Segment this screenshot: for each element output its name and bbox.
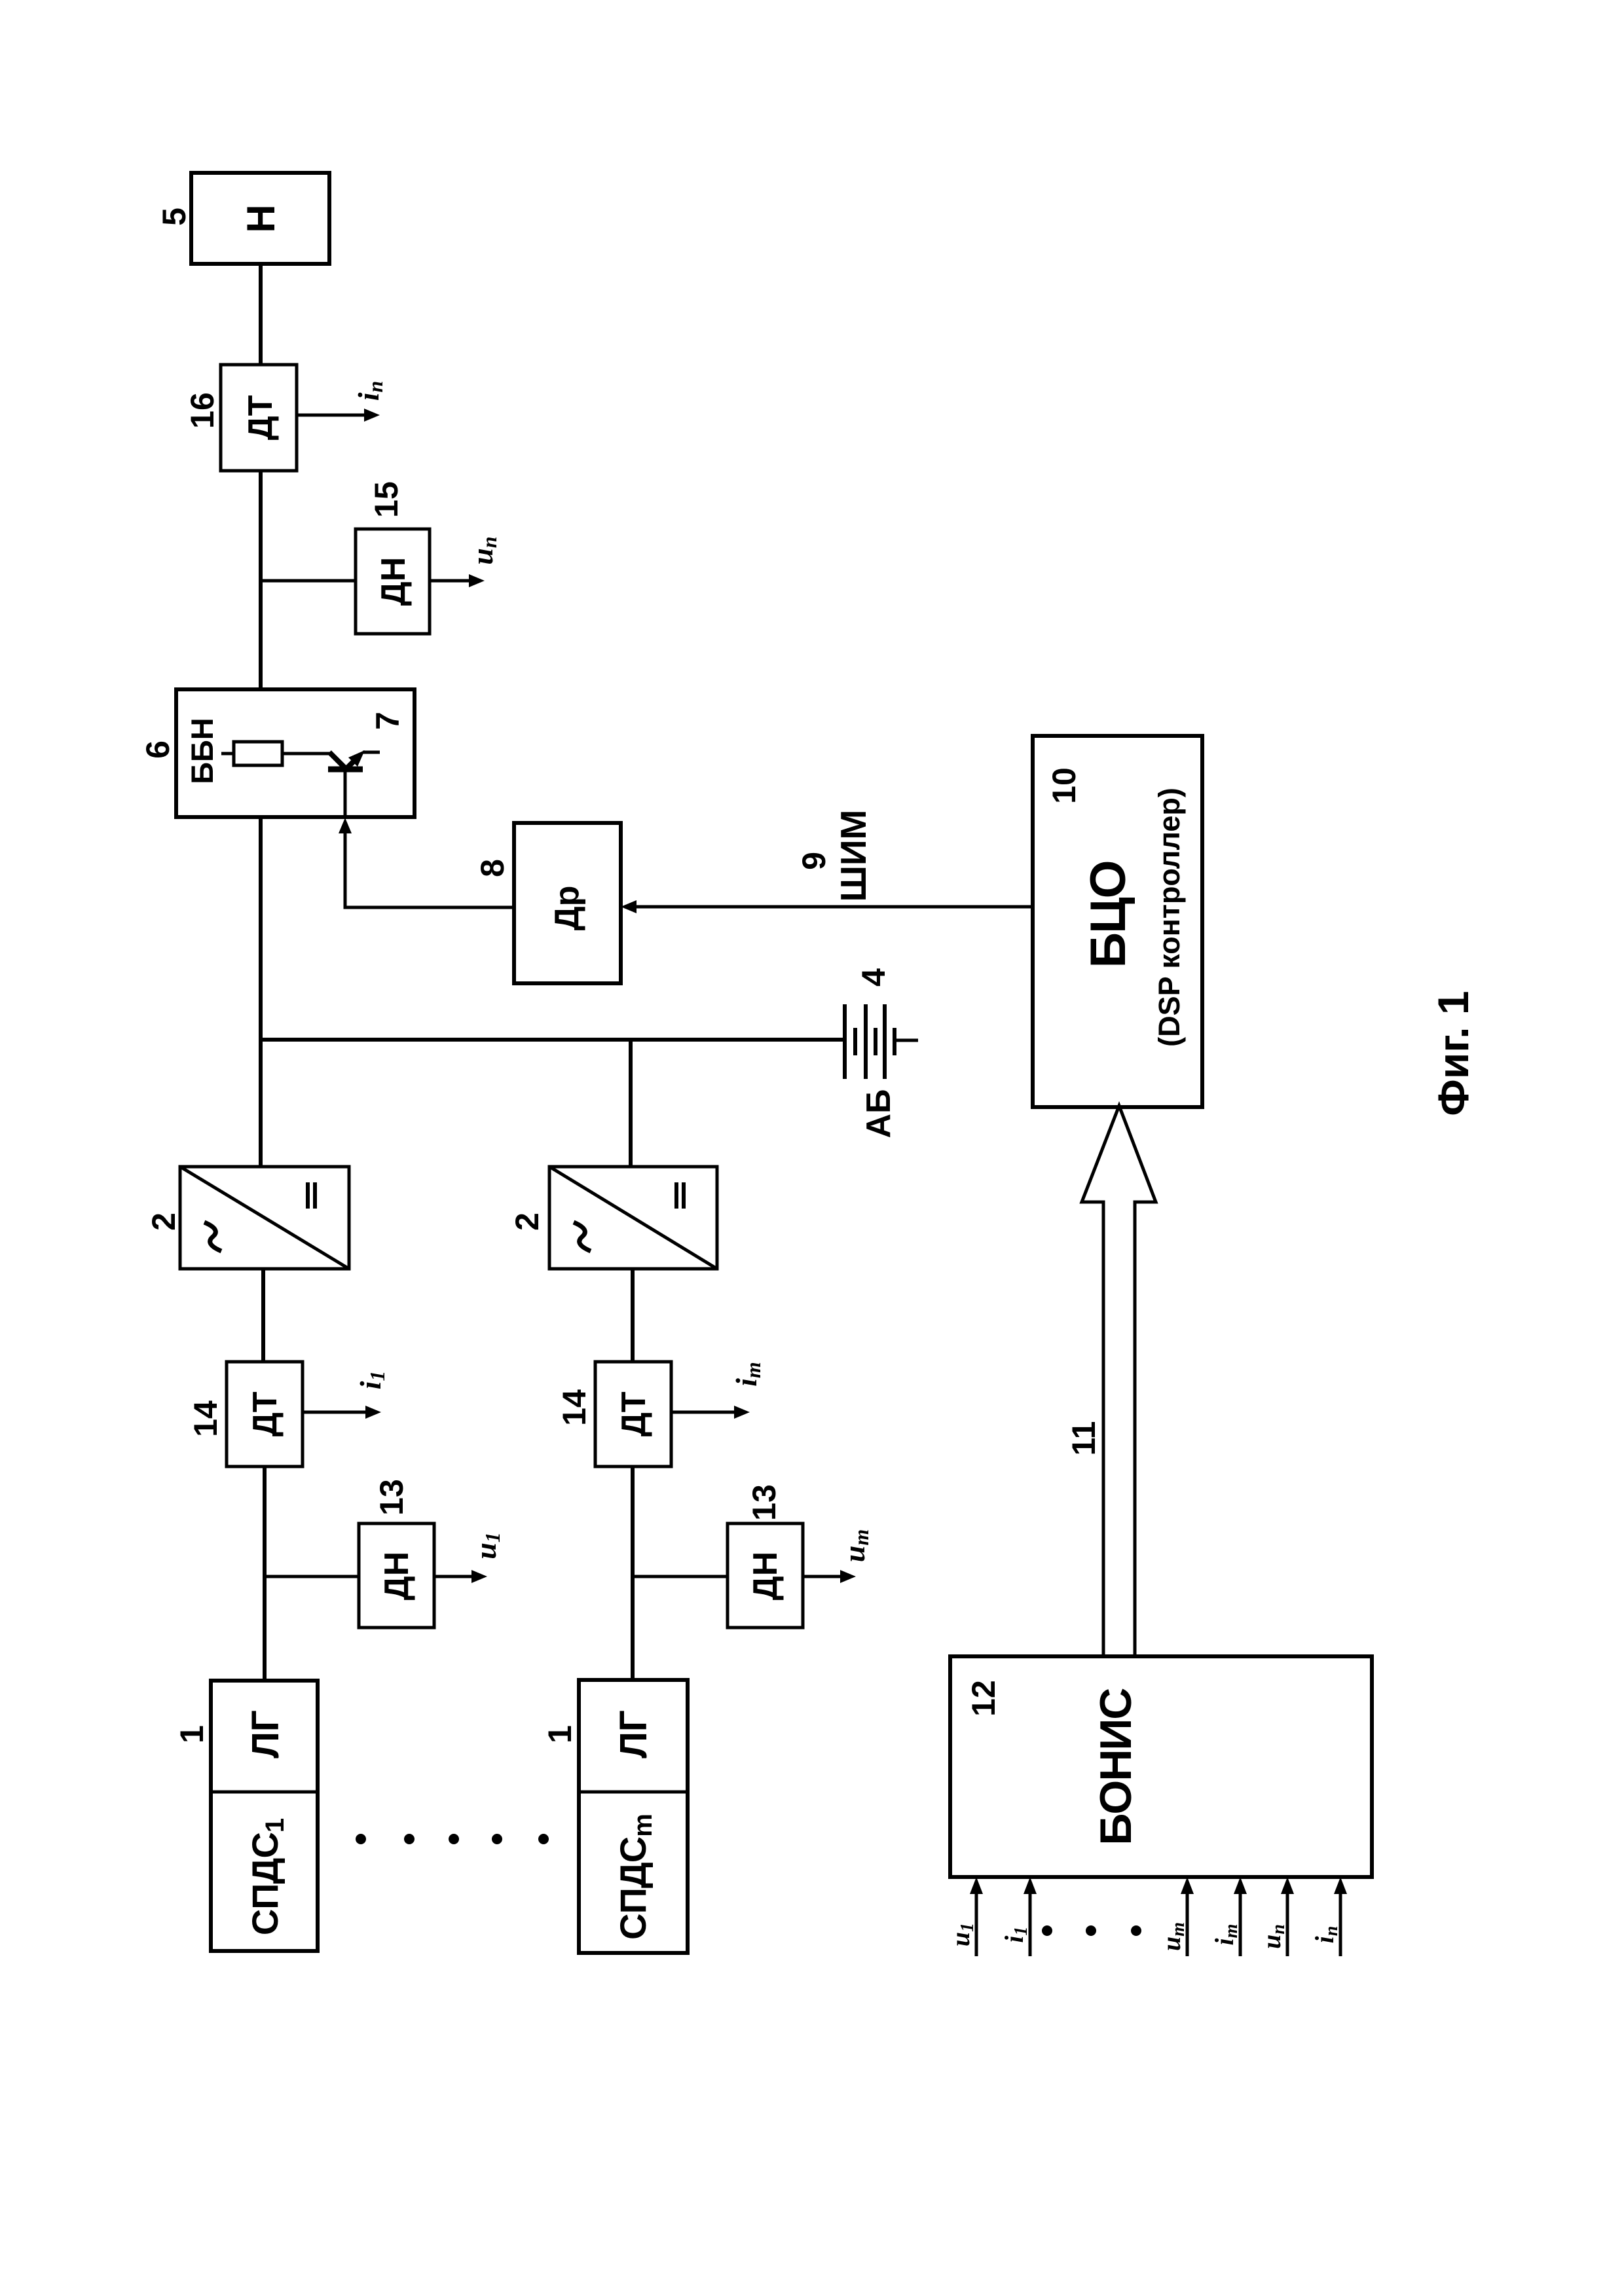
svg-text:im: im bbox=[1209, 1924, 1242, 1946]
svg-text:ЛГ: ЛГ bbox=[244, 1710, 287, 1758]
svg-text:un: un bbox=[466, 536, 501, 564]
svg-text:15: 15 bbox=[368, 481, 405, 518]
block BBN 6 bbox=[176, 689, 415, 817]
wire bus BBN to DT16 bbox=[259, 471, 263, 689]
resistor top lead bbox=[221, 752, 234, 756]
wire inverter1 to DT14 chain1 bbox=[261, 1269, 265, 1362]
inverter DC bars (chain m) bbox=[674, 1182, 678, 1209]
wire u_1 output arrow bbox=[434, 1575, 474, 1578]
battery long plate 3 bbox=[883, 1004, 887, 1079]
svg-text:13: 13 bbox=[373, 1479, 410, 1516]
inverter diagonal (chain 1) bbox=[180, 1167, 349, 1269]
svg-text:1: 1 bbox=[542, 1725, 578, 1743]
wire i_m output arrow bbox=[671, 1411, 737, 1414]
wire H to DT16 bbox=[259, 263, 263, 365]
svg-text:8: 8 bbox=[474, 859, 511, 877]
svg-text:i1: i1 bbox=[354, 1371, 389, 1390]
svg-text:БОНИС: БОНИС bbox=[1091, 1688, 1141, 1846]
big outline arrow 11 BONIS to BCO bbox=[1082, 1106, 1156, 1656]
block DN 15 voltage sensor bbox=[356, 529, 430, 634]
svg-text:БЦО: БЦО bbox=[1080, 861, 1136, 968]
svg-text:in: in bbox=[352, 381, 387, 401]
block H (load) 5 bbox=[191, 173, 329, 264]
svg-text:16: 16 bbox=[184, 392, 221, 429]
svg-text:ДТ: ДТ bbox=[246, 1391, 284, 1436]
battery short plate 1 bbox=[853, 1028, 857, 1055]
svg-text:5: 5 bbox=[156, 208, 193, 226]
resistor bottom lead / collector wire bbox=[282, 752, 331, 756]
wire battery drop from bus junction bbox=[261, 1038, 845, 1042]
battery long plate 2 bbox=[864, 1004, 868, 1079]
wire branch to DN13 chain m bbox=[633, 1575, 728, 1578]
wire branch to DN15 bbox=[261, 579, 356, 583]
svg-text:14: 14 bbox=[556, 1389, 593, 1426]
svg-text:u1: u1 bbox=[946, 1923, 978, 1946]
svg-text:10: 10 bbox=[1046, 767, 1082, 804]
svg-text:Н: Н bbox=[239, 204, 283, 232]
svg-text:um: um bbox=[1156, 1922, 1189, 1951]
inverter AC tilde (chain m) bbox=[574, 1222, 591, 1251]
svg-text:7: 7 bbox=[369, 712, 406, 730]
arrowhead into transistor base bbox=[339, 818, 352, 833]
svg-text:un: un bbox=[1257, 1924, 1289, 1949]
svg-text:4: 4 bbox=[855, 968, 892, 987]
input arrow im to BONIS bbox=[1239, 1891, 1242, 1956]
block DT 16 current sensor bbox=[221, 365, 297, 471]
wire u_n output arrow bbox=[430, 579, 471, 583]
block DN 13 chain1 bbox=[359, 1523, 434, 1628]
inverter DC bars (chain 1) bbox=[306, 1182, 310, 1209]
svg-text:ДН: ДН bbox=[378, 1552, 416, 1601]
svg-text:2: 2 bbox=[145, 1212, 182, 1231]
svg-text:1: 1 bbox=[174, 1725, 210, 1743]
arrowhead u_m bbox=[840, 1570, 856, 1583]
svg-text:ЛГ: ЛГ bbox=[612, 1710, 655, 1758]
block DT 14 chain1 bbox=[227, 1362, 303, 1467]
block DT 14 chain m bbox=[595, 1362, 671, 1467]
wire DT14 to LG chain m bbox=[631, 1467, 635, 1680]
svg-text:13: 13 bbox=[746, 1484, 783, 1521]
input arrow u1 to BONIS bbox=[975, 1891, 978, 1956]
wire i_n output arrow bbox=[297, 414, 367, 417]
battery bottom stub bbox=[895, 1039, 918, 1042]
transistor 7 emitter arrowhead bbox=[348, 750, 365, 767]
transistor 7 emitter wire bbox=[363, 751, 380, 754]
arrowhead u_n bbox=[469, 574, 485, 587]
inverter 2 box (chain m) bbox=[549, 1167, 717, 1269]
arrowhead u_1 bbox=[471, 1570, 487, 1583]
transistor 7 emitter slant bbox=[347, 756, 359, 768]
svg-text:ДН: ДН bbox=[747, 1552, 784, 1601]
input arrow in to BONIS bbox=[1339, 1891, 1342, 1956]
svg-text:СПДС1: СПДС1 bbox=[244, 1818, 289, 1935]
arrowhead i_n bbox=[364, 409, 380, 422]
svg-text:Фиг. 1: Фиг. 1 bbox=[1429, 991, 1477, 1116]
svg-text:(DSP контроллер): (DSP контроллер) bbox=[1153, 788, 1186, 1047]
svg-text:6: 6 bbox=[139, 740, 176, 759]
wire DT14 to LG chain1 bbox=[263, 1467, 267, 1681]
transistor 7 base bar bbox=[328, 767, 363, 773]
transistor 7 collector slant bbox=[329, 752, 346, 769]
wire bus inverter1 to BBN bbox=[259, 817, 263, 1167]
wire i_1 output arrow bbox=[303, 1411, 368, 1414]
block SPDSm + LG chain m bbox=[579, 1680, 688, 1953]
arrowhead i_m bbox=[734, 1406, 750, 1419]
svg-text:9: 9 bbox=[796, 852, 832, 870]
wire PWM drive from Dr corner to BBN bbox=[345, 831, 514, 907]
svg-text:СПДСm: СПДСm bbox=[612, 1814, 657, 1940]
divider SPDS1/LG bbox=[211, 1791, 318, 1794]
battery short plate 3 bbox=[893, 1028, 896, 1055]
wire inverter2 to DT14 chain m bbox=[631, 1269, 635, 1362]
wire u_m output arrow bbox=[803, 1575, 843, 1578]
resistor in BBN bbox=[234, 742, 282, 765]
svg-text:u1: u1 bbox=[469, 1532, 504, 1559]
svg-text:ББН: ББН bbox=[185, 718, 219, 784]
svg-text:12: 12 bbox=[965, 1680, 1002, 1717]
svg-text:im: im bbox=[729, 1362, 765, 1387]
input arrow un to BONIS bbox=[1286, 1891, 1289, 1956]
block SPDS1 + LG chain1 bbox=[211, 1681, 318, 1951]
svg-text:ДТ: ДТ bbox=[615, 1391, 653, 1436]
svg-text:in: in bbox=[1310, 1926, 1342, 1944]
svg-text:Др: Др bbox=[548, 886, 586, 931]
wire inverter2 output to battery line bbox=[629, 1040, 633, 1167]
svg-text:2: 2 bbox=[509, 1212, 545, 1231]
inverter 2 box (chain 1) bbox=[180, 1167, 349, 1269]
inverter diagonal (chain m) bbox=[549, 1167, 717, 1269]
svg-text:11: 11 bbox=[1065, 1421, 1102, 1456]
wire branch to DN13 chain1 bbox=[265, 1575, 359, 1578]
dots chain continuation bbox=[356, 1834, 549, 1844]
input arrow i1 to BONIS bbox=[1029, 1891, 1032, 1956]
battery short plate 2 bbox=[874, 1028, 877, 1055]
svg-text:ДН: ДН bbox=[375, 557, 413, 606]
inverter AC tilde (chain 1) bbox=[204, 1222, 221, 1251]
svg-text:ШИМ: ШИМ bbox=[833, 810, 874, 902]
svg-text:АБ: АБ bbox=[860, 1089, 898, 1139]
divider SPDSm/LG bbox=[579, 1791, 688, 1794]
dots BONIS inputs bbox=[1042, 1925, 1141, 1936]
svg-text:ДТ: ДТ bbox=[242, 395, 280, 440]
wire PWM from BCO to Dr bbox=[635, 905, 1033, 909]
svg-text:i1: i1 bbox=[999, 1926, 1031, 1942]
arrowhead PWM into Dr bbox=[621, 900, 637, 913]
block DN 13 chain m bbox=[728, 1523, 803, 1628]
block BCO 10 bbox=[1033, 736, 1202, 1107]
arrowhead i_1 bbox=[365, 1406, 381, 1419]
svg-text:um: um bbox=[838, 1529, 873, 1562]
block Dr 8 driver bbox=[514, 823, 621, 983]
battery AB 4 long plate 1 bbox=[843, 1004, 847, 1079]
svg-text:14: 14 bbox=[187, 1400, 224, 1437]
input arrow um to BONIS bbox=[1186, 1891, 1189, 1956]
block BONIS 12 bbox=[950, 1656, 1372, 1877]
transistor 7 base lead inside BBN bbox=[344, 771, 347, 815]
